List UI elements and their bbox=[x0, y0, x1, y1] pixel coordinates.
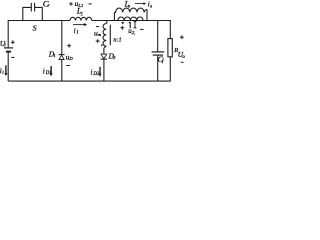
arrow input current down (left) bbox=[5, 65, 7, 74]
winding polarity mark bbox=[101, 44, 103, 46]
svg-text:1: 1 bbox=[53, 53, 55, 58]
plus sign big under loop bbox=[120, 26, 124, 30]
glyph I under loop bbox=[134, 22, 137, 28]
switch S section right stub bbox=[35, 7, 43, 20]
svg-text:2,: 2, bbox=[132, 30, 135, 36]
coupled loop bottom coil bbox=[118, 17, 143, 21]
capacitor Cf top plate bbox=[152, 51, 165, 53]
wire diode D2 branch lower bbox=[103, 59, 105, 81]
plus sign uLm bottom bbox=[96, 39, 100, 43]
arrow i1 under L1 bbox=[73, 24, 85, 26]
diode D2 cathode bar bbox=[101, 58, 108, 60]
coupled loop left edge bbox=[113, 12, 115, 20]
battery Ui short plate bbox=[6, 51, 11, 53]
wire winding bottom to diode D2 bbox=[104, 46, 106, 54]
wire top rail left segment bbox=[8, 20, 70, 22]
diode D1 cathode bar bbox=[59, 54, 65, 56]
wire left branch upper bbox=[7, 20, 9, 47]
plus sign Uo bbox=[180, 35, 184, 39]
plus sign uD1 bbox=[67, 44, 71, 48]
inductor L1 (leakage, in top rail) bbox=[70, 17, 92, 20]
svg-text:S: S bbox=[33, 23, 37, 32]
wire top rail right segment bbox=[92, 20, 171, 22]
svg-text:n:1: n:1 bbox=[113, 37, 121, 44]
plus sign battery bbox=[11, 40, 15, 44]
switch S section left stub bbox=[23, 7, 31, 20]
minus sign battery bbox=[11, 56, 14, 58]
capacitor Cf bottom plate bbox=[153, 54, 163, 56]
minus sign under loop bbox=[140, 28, 144, 30]
diode D2 triangle bbox=[101, 54, 107, 59]
capacitor Cr plate right bbox=[34, 3, 36, 12]
wire bottom rail bbox=[8, 80, 170, 82]
diode D1 triangle bbox=[59, 55, 64, 59]
battery Ui long plate bbox=[4, 47, 13, 49]
minus sign uL1 right bbox=[89, 3, 92, 5]
plus sign small under loop bbox=[122, 22, 125, 25]
plus sign uL1 left bbox=[69, 2, 73, 6]
capacitor Cr plate left bbox=[30, 3, 32, 12]
svg-text:i: i bbox=[91, 68, 93, 76]
svg-text:D: D bbox=[68, 56, 73, 61]
wire left branch lower bbox=[7, 53, 9, 82]
svg-text:2: 2 bbox=[113, 55, 116, 60]
svg-text:m: m bbox=[98, 32, 102, 37]
svg-text:D1: D1 bbox=[45, 71, 52, 76]
coupled loop top coil bbox=[114, 8, 144, 12]
svg-text:i: i bbox=[2, 71, 4, 76]
transformer core line bbox=[109, 25, 111, 46]
wire output cap branch lower bbox=[157, 56, 159, 81]
minus sign uLm top bbox=[96, 26, 99, 28]
svg-text:o: o bbox=[182, 55, 185, 60]
winding Lm vertical coil bbox=[103, 24, 106, 47]
svg-text:r: r bbox=[48, 4, 50, 9]
wire load branch lower bbox=[169, 57, 171, 81]
wire mag branch top stub bbox=[106, 20, 108, 24]
arrow is above loop bbox=[135, 3, 144, 5]
minus sign Uo bbox=[181, 61, 184, 63]
glyph 1 under loop bbox=[129, 22, 130, 28]
wire diode D1 branch upper bbox=[61, 20, 63, 54]
svg-text:s: s bbox=[150, 4, 152, 9]
arrow iD2 down bbox=[99, 67, 101, 75]
svg-text:i: i bbox=[43, 67, 45, 75]
svg-text:1: 1 bbox=[76, 31, 78, 36]
svg-text:s: s bbox=[128, 4, 130, 9]
svg-text:f: f bbox=[162, 60, 164, 65]
resistor R box bbox=[168, 39, 172, 57]
svg-text:1: 1 bbox=[81, 12, 83, 17]
minus sign uD1 bbox=[66, 65, 70, 67]
wire diode D1 branch lower bbox=[61, 60, 63, 81]
wire load branch upper bbox=[169, 20, 171, 39]
svg-text:D2: D2 bbox=[92, 72, 99, 77]
coupled loop right edge step bbox=[144, 10, 147, 21]
wire output cap branch upper bbox=[157, 21, 159, 52]
arrow iD1 down bbox=[50, 66, 52, 74]
